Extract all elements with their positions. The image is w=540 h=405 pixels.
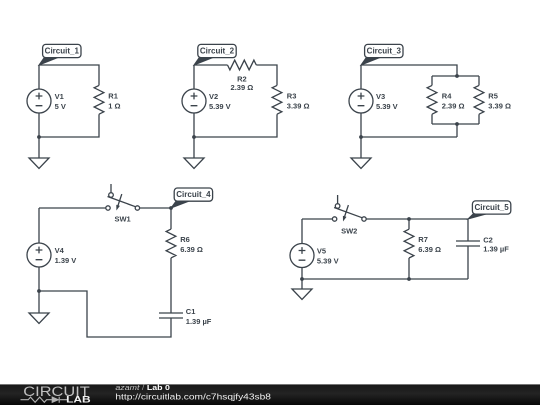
svg-text:azamt / Lab 0: azamt / Lab 0: [115, 383, 170, 392]
svg-text:5.39 V: 5.39 V: [209, 102, 231, 111]
svg-text:LAB: LAB: [66, 395, 91, 405]
svg-text:5 V: 5 V: [55, 102, 66, 111]
svg-text:V5: V5: [317, 247, 326, 256]
svg-text:3.39 Ω: 3.39 Ω: [488, 102, 511, 111]
svg-text:Circuit_5: Circuit_5: [474, 203, 509, 212]
svg-text:V4: V4: [55, 246, 65, 255]
svg-text:V2: V2: [209, 92, 218, 101]
svg-text:SW1: SW1: [114, 214, 130, 223]
svg-text:6.39 Ω: 6.39 Ω: [180, 245, 203, 254]
svg-text:1.39 µF: 1.39 µF: [186, 317, 212, 326]
svg-text:2.39 Ω: 2.39 Ω: [442, 102, 465, 111]
svg-text:SW2: SW2: [341, 226, 357, 235]
svg-text:1 Ω: 1 Ω: [108, 102, 120, 111]
svg-text:V1: V1: [55, 92, 64, 101]
svg-text:Circuit_2: Circuit_2: [200, 47, 235, 56]
svg-text:1.39 µF: 1.39 µF: [483, 244, 509, 253]
svg-text:2.39 Ω: 2.39 Ω: [231, 83, 254, 92]
svg-text:Circuit_1: Circuit_1: [45, 47, 80, 56]
svg-text:R3: R3: [287, 91, 297, 100]
svg-text:6.39 Ω: 6.39 Ω: [418, 245, 441, 254]
svg-text:R5: R5: [488, 91, 498, 100]
svg-text:Circuit_4: Circuit_4: [176, 190, 211, 199]
svg-text:C2: C2: [483, 236, 493, 245]
svg-text:R4: R4: [442, 91, 452, 100]
svg-text:C1: C1: [186, 307, 196, 316]
svg-text:R1: R1: [108, 91, 118, 100]
svg-text:V3: V3: [376, 92, 385, 101]
svg-text:5.39 V: 5.39 V: [317, 256, 339, 265]
svg-text:1.39 V: 1.39 V: [55, 256, 77, 265]
svg-text:Circuit_3: Circuit_3: [367, 47, 402, 56]
svg-text:R7: R7: [418, 235, 428, 244]
svg-text:R6: R6: [180, 235, 190, 244]
svg-text:5.39 V: 5.39 V: [376, 102, 398, 111]
svg-text:3.39 Ω: 3.39 Ω: [287, 102, 310, 111]
svg-text:http://circuitlab.com/c7hsqjfy: http://circuitlab.com/c7hsqjfy43sb8: [115, 392, 271, 402]
